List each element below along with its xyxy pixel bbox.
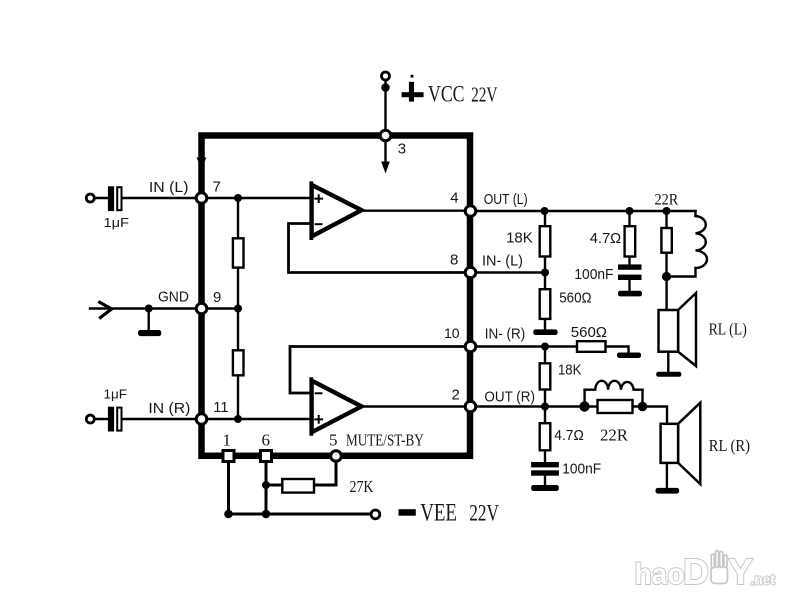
svg-text:5: 5 [329, 430, 338, 449]
svg-text:GND: GND [158, 288, 189, 305]
svg-text:1μF: 1μF [104, 386, 128, 401]
svg-text:3: 3 [398, 141, 406, 158]
svg-text:18K: 18K [506, 229, 533, 246]
svg-text:Y: Y [728, 551, 753, 592]
svg-text:1: 1 [223, 431, 232, 450]
svg-text:VCC: VCC [428, 82, 465, 107]
svg-text:4.7Ω: 4.7Ω [554, 427, 584, 444]
svg-text:560Ω: 560Ω [559, 289, 591, 306]
svg-text:RL (R): RL (R) [709, 436, 750, 455]
svg-text:1μF: 1μF [104, 215, 130, 230]
svg-text:D: D [683, 551, 709, 592]
svg-text:560Ω: 560Ω [571, 324, 607, 341]
svg-text:IN (R): IN (R) [148, 400, 190, 417]
svg-text:11: 11 [213, 399, 228, 416]
svg-text:2: 2 [452, 387, 460, 404]
svg-text:10: 10 [444, 325, 460, 341]
svg-text:IN- (R): IN- (R) [485, 326, 526, 343]
svg-text:IN- (L): IN- (L) [482, 253, 523, 270]
svg-text:.net: .net [751, 572, 776, 589]
svg-text:4: 4 [450, 190, 458, 207]
svg-text:VEE: VEE [420, 500, 457, 527]
svg-text:hao: hao [635, 558, 685, 591]
svg-text:22R: 22R [600, 426, 628, 445]
svg-text:4.7Ω: 4.7Ω [590, 230, 622, 247]
svg-text:100nF: 100nF [562, 460, 601, 477]
svg-text:27K: 27K [350, 477, 375, 496]
svg-text:9: 9 [213, 289, 221, 306]
svg-text:6: 6 [262, 431, 271, 450]
svg-text:MUTE/ST-BY: MUTE/ST-BY [346, 430, 424, 449]
svg-text:22R: 22R [655, 192, 679, 209]
svg-text:22V: 22V [471, 83, 498, 107]
svg-text:100nF: 100nF [574, 266, 613, 283]
svg-text:22V: 22V [469, 501, 499, 526]
svg-text:RL (L): RL (L) [709, 320, 747, 339]
svg-text:OUT (L): OUT (L) [484, 191, 528, 208]
svg-text:7: 7 [213, 178, 221, 195]
svg-text:IN (L): IN (L) [149, 179, 189, 196]
svg-text:8: 8 [450, 252, 458, 269]
svg-text:OUT (R): OUT (R) [484, 389, 535, 406]
svg-text:18K: 18K [558, 362, 581, 379]
